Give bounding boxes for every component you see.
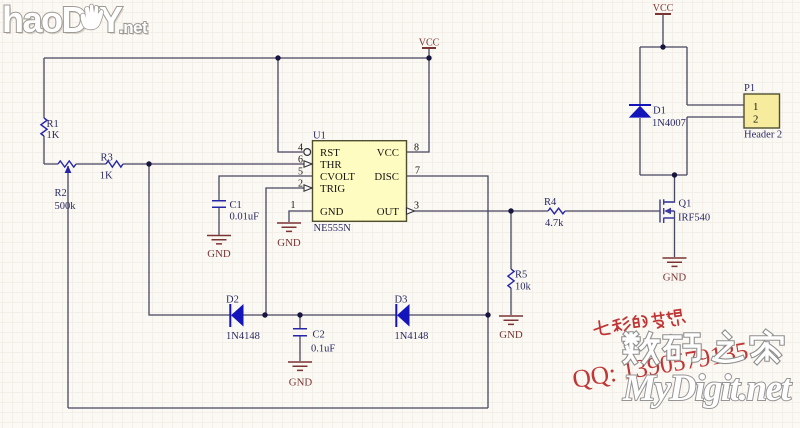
- node OUT/R5 junction: [508, 208, 513, 213]
- svg-text:RST: RST: [320, 147, 340, 159]
- svg-text:6: 6: [298, 155, 303, 166]
- svg-text:R1: R1: [47, 119, 59, 130]
- ground under Q1: [663, 258, 687, 284]
- wire P1 pin1: [687, 47, 744, 105]
- svg-text:2: 2: [298, 179, 303, 190]
- svg-text:2: 2: [753, 114, 758, 126]
- wire bottom rail: [68, 407, 488, 409]
- resistor R2 (pot): [58, 161, 76, 167]
- svg-text:TRIG: TRIG: [320, 183, 345, 195]
- svg-text:MyDigit.net: MyDigit.net: [622, 368, 793, 409]
- resistor R4: [548, 208, 565, 214]
- watermark red slogan: [593, 309, 685, 337]
- svg-text:OUT: OUT: [377, 206, 400, 218]
- svg-text:C2: C2: [313, 330, 325, 341]
- diode D3: [396, 304, 409, 327]
- wire left vertical upper: [43, 58, 45, 118]
- wire R5 top: [510, 211, 512, 269]
- wire bottom of D1 loop: [640, 174, 687, 176]
- svg-text:1K: 1K: [100, 171, 113, 182]
- transistor Q1: [660, 199, 675, 223]
- wire wiper vertical: [67, 172, 69, 408]
- resistor R1: [41, 118, 47, 136]
- pin numbers: [291, 143, 421, 212]
- wire D1 lower stub: [639, 118, 641, 175]
- svg-text:.net: .net: [119, 18, 148, 37]
- wire diode row: [149, 164, 488, 315]
- svg-text:1: 1: [753, 101, 758, 113]
- svg-text:7: 7: [415, 166, 420, 177]
- wire top rail: [44, 57, 429, 59]
- wire left vertical lower: [43, 136, 45, 164]
- svg-text:4.7k: 4.7k: [545, 218, 564, 229]
- pot wiper arrow: [65, 166, 72, 174]
- wire C1 to ground: [218, 208, 220, 235]
- wire drain vertical: [664, 175, 675, 202]
- wire CVOLT to C1: [219, 176, 313, 200]
- svg-text:NE555N: NE555N: [314, 223, 352, 234]
- capacitor C1: [212, 201, 226, 208]
- svg-text:0.1uF: 0.1uF: [311, 344, 335, 355]
- node top/RST junction: [275, 55, 280, 60]
- svg-text:VCC: VCC: [377, 147, 399, 159]
- pin 3 arrow: [407, 208, 415, 214]
- logo haoDIY.net: [2, 0, 150, 42]
- svg-text:haoD: haoD: [2, 0, 87, 40]
- svg-text:IRF540: IRF540: [678, 213, 710, 224]
- svg-text:5: 5: [298, 167, 303, 178]
- watermark shuma zhijia: [624, 332, 782, 362]
- node D2 row left junction: [262, 312, 267, 317]
- svg-text:Header 2: Header 2: [744, 130, 782, 141]
- pin 2 arrow: [304, 185, 312, 191]
- svg-text:GND: GND: [207, 248, 231, 260]
- svg-text:R3: R3: [101, 153, 113, 164]
- power VCC (right): [653, 3, 674, 14]
- resistor R3: [106, 161, 123, 167]
- connector P1 body: [744, 94, 780, 128]
- svg-text:GND: GND: [320, 206, 344, 218]
- svg-text:R2: R2: [55, 188, 67, 199]
- svg-text:GND: GND: [499, 329, 523, 341]
- ground under pin1: [277, 223, 301, 249]
- resistor R5: [508, 269, 514, 288]
- svg-text:0.01uF: 0.01uF: [230, 212, 260, 223]
- wire P1 pin2: [687, 117, 744, 175]
- svg-text:GND: GND: [277, 237, 301, 249]
- wire OUT to R4 to gate: [413, 210, 660, 212]
- svg-text:R4: R4: [544, 197, 557, 208]
- svg-text:P1: P1: [744, 83, 755, 94]
- svg-text:3: 3: [414, 201, 419, 212]
- svg-text:500k: 500k: [55, 201, 77, 212]
- wire C2 stub: [299, 315, 301, 361]
- wire pin1 to ground: [289, 211, 313, 222]
- pin 6 arrow: [304, 161, 312, 167]
- svg-text:1: 1: [291, 200, 296, 211]
- diode D1: [629, 105, 651, 118]
- ground under C1: [207, 236, 231, 261]
- svg-text:CVOLT: CVOLT: [320, 171, 355, 183]
- node row/DISC junction: [485, 312, 490, 317]
- wire VCC2 drop: [662, 14, 664, 47]
- wire source vertical: [674, 211, 676, 257]
- pin names: [320, 101, 758, 218]
- svg-text:D3: D3: [395, 295, 408, 306]
- ground under R5: [499, 316, 523, 341]
- node top/VCC junction: [426, 55, 431, 60]
- svg-text:4: 4: [298, 143, 303, 154]
- svg-text:8: 8: [414, 143, 419, 154]
- node THR junction: [146, 161, 151, 166]
- svg-text:VCC: VCC: [419, 38, 440, 49]
- svg-text:GND: GND: [289, 377, 313, 389]
- svg-text:C1: C1: [230, 200, 242, 211]
- svg-text:D1: D1: [653, 106, 666, 117]
- svg-text:VCC: VCC: [653, 3, 674, 14]
- svg-text:10k: 10k: [515, 282, 532, 293]
- svg-text:1N4148: 1N4148: [395, 331, 429, 342]
- wire mid row to THR: [44, 163, 313, 165]
- svg-text:THR: THR: [320, 159, 342, 171]
- node C2 junction: [297, 312, 302, 317]
- wire R5 bottom: [510, 288, 512, 315]
- wire top of D1 loop: [640, 46, 687, 48]
- diode D2: [230, 304, 243, 327]
- power VCC (left): [419, 38, 440, 49]
- svg-text:1K: 1K: [47, 130, 60, 141]
- svg-text:1N4148: 1N4148: [226, 331, 260, 342]
- pin 4 RST bubble: [304, 149, 311, 156]
- svg-text:R5: R5: [515, 270, 527, 281]
- capacitor C2: [293, 329, 307, 336]
- wire RST branch: [278, 58, 303, 152]
- wire VCC drop to pin8: [407, 48, 429, 152]
- op-amp U1 body (NE555): [313, 141, 407, 222]
- wire DISC vertical: [407, 176, 488, 408]
- svg-text:1N4007: 1N4007: [652, 118, 686, 129]
- node drain junction: [672, 172, 677, 177]
- svg-text:DISC: DISC: [374, 171, 399, 183]
- svg-text:D2: D2: [226, 295, 239, 306]
- svg-text:U1: U1: [313, 131, 326, 142]
- node VCC2 junction: [660, 44, 665, 49]
- wire D1 upper stub: [639, 47, 641, 104]
- ground under C2: [288, 362, 312, 389]
- svg-text:GND: GND: [663, 272, 687, 284]
- svg-text:Q1: Q1: [679, 199, 692, 210]
- wire TRIG branch: [266, 188, 313, 315]
- Q1 body arrow: [664, 208, 671, 215]
